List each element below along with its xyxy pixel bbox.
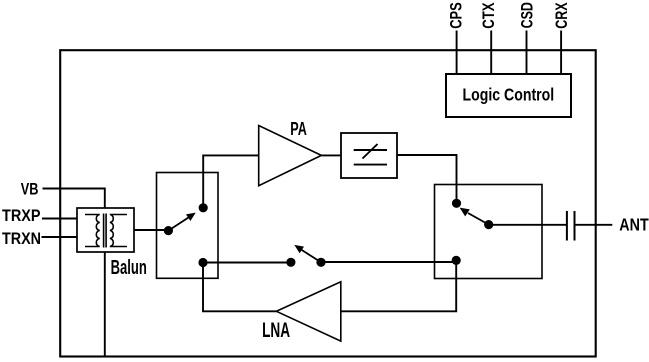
op-amp LNA	[276, 282, 340, 341]
wire bypass left	[203, 262, 291, 264]
node SW2 TX throw	[452, 199, 461, 208]
bypass switch SW3 arm	[294, 245, 321, 262]
wire SW2 to capacitor	[489, 224, 567, 226]
node bypass left	[286, 258, 295, 267]
SW1 arm arrow	[168, 213, 195, 231]
svg-text:Balun: Balun	[111, 257, 147, 279]
op-amp PA	[259, 126, 322, 186]
wire bypass right	[321, 261, 456, 263]
harmonic filter block	[341, 133, 397, 178]
wire capacitor to ANT	[575, 224, 613, 226]
wire CSD to Logic Control	[526, 31, 528, 75]
wire SW1 to LNA output	[203, 263, 276, 312]
svg-text:ANT: ANT	[619, 215, 649, 234]
svg-text:CTX: CTX	[479, 2, 498, 29]
balun T1	[77, 208, 134, 252]
svg-text:PA: PA	[290, 118, 307, 139]
wire balun output	[134, 229, 169, 231]
svg-text:CRX: CRX	[552, 2, 571, 29]
svg-text:Logic Control: Logic Control	[463, 84, 555, 104]
wire VB	[43, 189, 105, 357]
node SW1 common	[164, 226, 173, 235]
switch SW1 box	[157, 173, 219, 279]
wire TRXN	[42, 236, 79, 238]
node SW2 common	[484, 220, 493, 229]
SW2 arm arrow	[460, 208, 489, 225]
wire TRXP	[42, 218, 78, 220]
svg-text:CSD: CSD	[518, 2, 537, 28]
Logic Control block	[446, 74, 571, 117]
wire LNA input to SW2	[341, 260, 456, 311]
svg-text:TRXP: TRXP	[2, 206, 41, 225]
svg-text:CPS: CPS	[447, 2, 466, 29]
wire filter to SW2	[397, 155, 457, 203]
node SW1 RX throw	[198, 258, 207, 267]
chip boundary	[60, 50, 596, 356]
wire CTX to Logic Control	[490, 31, 492, 75]
wire PA to filter	[321, 154, 341, 156]
node SW2 RX throw	[452, 256, 461, 265]
node SW1 TX throw	[199, 203, 208, 212]
wire CPS to Logic Control	[456, 31, 458, 75]
wire SW1 to PA	[203, 155, 259, 207]
svg-text:TRXN: TRXN	[2, 229, 41, 248]
switch SW2 box	[435, 185, 543, 279]
wire CRX to Logic Control	[560, 31, 562, 75]
node bypass right	[316, 258, 325, 267]
svg-text:LNA: LNA	[262, 317, 290, 342]
svg-text:VB: VB	[21, 181, 39, 199]
capacitor C1	[567, 211, 575, 241]
